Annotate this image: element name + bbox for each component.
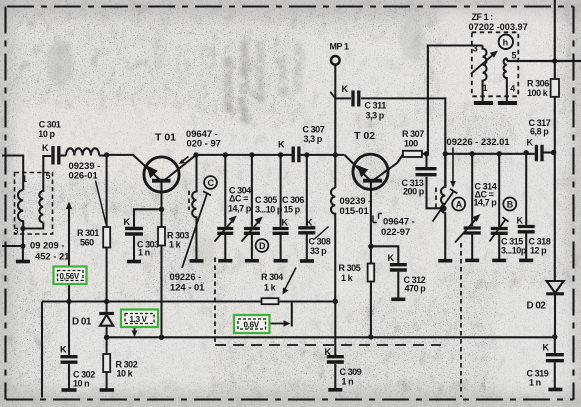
ground bar C302 bbox=[62, 388, 77, 392]
node C304 bus bbox=[223, 152, 228, 157]
svg-text:1 n: 1 n bbox=[529, 378, 541, 388]
svg-text:IBJHCD HIJT: IBJHCD HIJT bbox=[256, 41, 267, 103]
resistor R306 bbox=[551, 79, 559, 97]
svg-text:JBC BEH: JBC BEH bbox=[153, 28, 164, 72]
svg-text:JHPT CLJBCHH: JHPT CLJBCHH bbox=[239, 41, 251, 125]
ground bar ZF1 pin1 bbox=[474, 101, 493, 105]
wire C311 to line down bbox=[361, 98, 445, 186]
node MP1 bus bbox=[333, 152, 338, 157]
ground bar C303 bbox=[127, 260, 141, 264]
svg-text:200 p: 200 p bbox=[403, 187, 425, 197]
svg-text:3,3 p: 3,3 p bbox=[366, 111, 385, 121]
svg-text:1 k: 1 k bbox=[264, 283, 277, 293]
svg-text:3...10p: 3...10p bbox=[501, 246, 527, 256]
wire antenna input left bbox=[2, 156, 23, 191]
svg-text:026-01: 026-01 bbox=[69, 170, 98, 181]
wire 0,56V measure line with arrow bbox=[68, 207, 70, 302]
node R301 rail bbox=[104, 299, 109, 304]
svg-text:ZF 1 :: ZF 1 : bbox=[472, 12, 494, 22]
node ground junction bbox=[20, 243, 25, 248]
node C315 bus bbox=[497, 151, 502, 156]
leader 0,6V arrow bbox=[270, 323, 286, 325]
circle label h bbox=[499, 35, 513, 49]
rail ground y337 bbox=[107, 336, 555, 338]
svg-text:020 - 97: 020 - 97 bbox=[187, 137, 221, 148]
svg-text:C 305: C 305 bbox=[255, 195, 277, 205]
ZF1 dashed box bbox=[472, 32, 519, 96]
node osc coil bus bbox=[195, 154, 197, 156]
svg-text:07202 -003.97: 07202 -003.97 bbox=[469, 22, 528, 32]
trimmer C304 bbox=[224, 155, 226, 227]
svg-text:D: D bbox=[259, 241, 266, 251]
transformer TR input primary coil bbox=[18, 190, 23, 229]
svg-text:ΔC =: ΔC = bbox=[229, 194, 248, 204]
svg-text:10 p: 10 p bbox=[38, 129, 55, 139]
leader T01 arrow bbox=[182, 157, 189, 162]
svg-text:100 k: 100 k bbox=[527, 88, 549, 98]
mark before 09647-022-97 bbox=[373, 216, 377, 223]
node C317 right bbox=[551, 150, 556, 155]
svg-text:470 p: 470 p bbox=[405, 284, 427, 294]
inductor 09239-015-01 bbox=[331, 188, 335, 301]
node R307 line A bbox=[424, 151, 429, 156]
node C318 bus bbox=[524, 150, 529, 155]
ZF1 primary coil bbox=[483, 46, 487, 102]
inductor 09239-026-01 bbox=[66, 148, 99, 155]
resistor R305 bbox=[370, 246, 372, 263]
capacitor C306 bbox=[280, 155, 282, 227]
transistor T02 bbox=[353, 154, 388, 189]
capacitor C318 bbox=[525, 153, 527, 225]
svg-text:10 n: 10 n bbox=[73, 379, 89, 389]
resistor R301 bbox=[106, 155, 108, 227]
svg-text:C 308: C 308 bbox=[309, 237, 331, 247]
node coil to rail302 bbox=[333, 299, 338, 304]
capacitor C317 in bus bbox=[536, 145, 542, 162]
arrow 1,3V down bbox=[134, 328, 136, 333]
svg-text:h: h bbox=[503, 38, 508, 48]
node measuring stub bbox=[291, 302, 293, 327]
wire line A to ZF1 bbox=[428, 46, 483, 154]
svg-text:K: K bbox=[543, 342, 550, 352]
node D02 rail bbox=[552, 334, 557, 339]
trimmer C315 bbox=[498, 154, 500, 227]
svg-text:K: K bbox=[306, 217, 313, 227]
capacitor C311 bbox=[353, 91, 359, 107]
tick MP1 junction bbox=[330, 92, 335, 99]
svg-text:K: K bbox=[527, 137, 534, 147]
svg-text:14,7 p: 14,7 p bbox=[228, 204, 252, 214]
svg-text:K: K bbox=[517, 215, 524, 225]
svg-text:K: K bbox=[388, 253, 395, 263]
measure box 0,56V bbox=[54, 267, 87, 285]
svg-text:015-01: 015-01 bbox=[340, 205, 369, 216]
gang dashed links bbox=[189, 188, 461, 398]
node R303 to rail bbox=[159, 335, 164, 340]
variable inductor A bbox=[441, 154, 445, 260]
svg-text:T 02: T 02 bbox=[354, 130, 375, 142]
svg-text:4: 4 bbox=[510, 84, 515, 94]
wire T02 collector bbox=[374, 155, 403, 180]
svg-text:MP 1: MP 1 bbox=[330, 42, 349, 52]
svg-text:09226 - 232.01: 09226 - 232.01 bbox=[447, 136, 510, 147]
wire bus to T01 base bbox=[107, 155, 160, 180]
scan smudges / bleed-through watermark bbox=[46, 16, 424, 268]
ground bar R302 bbox=[100, 388, 114, 392]
svg-text:0,6V: 0,6V bbox=[244, 321, 260, 330]
leader R304 bbox=[285, 268, 297, 291]
svg-text:5: 5 bbox=[512, 51, 517, 61]
circle label A bbox=[452, 198, 465, 211]
svg-text:R 305: R 305 bbox=[339, 263, 361, 273]
ground bar osc coil bbox=[190, 259, 204, 263]
transistor T01 bbox=[144, 157, 179, 192]
svg-text:09226 -: 09226 - bbox=[170, 271, 202, 282]
wire C301 to coil bbox=[61, 154, 67, 156]
svg-text:K: K bbox=[42, 143, 49, 153]
svg-text:K: K bbox=[278, 139, 285, 149]
measure box 1,3V bbox=[121, 310, 158, 328]
svg-text:C 306: C 306 bbox=[282, 195, 304, 205]
wire MP1 junction to C311 bbox=[335, 97, 351, 99]
capacitor C309 bbox=[334, 301, 336, 355]
svg-text:3: 3 bbox=[14, 226, 19, 236]
svg-text:560: 560 bbox=[80, 238, 94, 248]
wire T01 emitter lead bbox=[160, 181, 162, 209]
wire bus C307 to T02 bbox=[299, 154, 345, 156]
wire C303 to ground bbox=[133, 236, 135, 261]
svg-text:09647 -: 09647 - bbox=[383, 216, 415, 227]
ZF1 secondary coil bbox=[504, 58, 507, 101]
node R305 rail bbox=[368, 334, 373, 339]
svg-text:D 02: D 02 bbox=[527, 301, 547, 312]
svg-text:K: K bbox=[282, 217, 289, 227]
wire ground stem bbox=[22, 229, 24, 262]
node C306 bus bbox=[278, 152, 283, 157]
transformer TR secondary coil bbox=[39, 156, 51, 223]
resistor R304 bbox=[262, 298, 279, 304]
wire T02 emitter lead bbox=[370, 180, 372, 246]
test point MP1 bbox=[331, 56, 340, 65]
node C314 bus bbox=[470, 151, 475, 156]
svg-text:12 p: 12 p bbox=[530, 246, 547, 256]
svg-text:3,3 p: 3,3 p bbox=[304, 134, 323, 144]
capacitor C307 in bus bbox=[293, 147, 299, 163]
wire emitter to C303 bbox=[134, 209, 162, 227]
svg-text:C 307: C 307 bbox=[303, 125, 325, 135]
node T02 emitter bbox=[368, 244, 373, 249]
adjust arrow ZF1 bbox=[471, 53, 495, 74]
svg-text:5: 5 bbox=[46, 171, 51, 181]
wire T01 collector to bus bbox=[164, 155, 197, 181]
svg-text:C 309: C 309 bbox=[340, 367, 362, 377]
svg-text:1 n: 1 n bbox=[342, 377, 354, 387]
wire bus right section bbox=[445, 153, 534, 155]
svg-text:C: C bbox=[208, 178, 215, 188]
svg-text:JE HEBE: JE HEBE bbox=[278, 55, 289, 98]
ground bar ZF1 pin4 bbox=[498, 101, 517, 105]
circle label C bbox=[204, 176, 217, 189]
svg-text:100: 100 bbox=[404, 139, 418, 149]
svg-text:A: A bbox=[456, 200, 463, 210]
trimmer C314 bbox=[471, 154, 473, 227]
svg-text:1,3 V: 1,3 V bbox=[130, 315, 148, 324]
capacitor C319 bbox=[554, 337, 556, 353]
svg-text:1 k: 1 k bbox=[169, 240, 182, 250]
svg-text:K: K bbox=[124, 217, 131, 227]
diode D02 bbox=[547, 281, 564, 293]
svg-text:14,7 p: 14,7 p bbox=[474, 198, 498, 208]
circle label B bbox=[503, 198, 516, 211]
svg-text:124 - 01: 124 - 01 bbox=[170, 282, 204, 293]
wire exit left at ground bbox=[2, 245, 23, 247]
svg-text:K: K bbox=[325, 347, 332, 357]
capacitor C313 bbox=[425, 154, 427, 167]
svg-text:K: K bbox=[342, 84, 349, 94]
svg-text:33 p: 33 p bbox=[310, 246, 327, 256]
svg-text:1 k: 1 k bbox=[341, 273, 354, 283]
svg-text:R 307: R 307 bbox=[402, 129, 424, 139]
capacitor C302 bbox=[68, 302, 70, 356]
node D01 cathode rail bbox=[104, 335, 109, 340]
node pin3 junction bbox=[20, 226, 25, 231]
node T01 emitter bbox=[159, 207, 164, 212]
svg-text:1: 1 bbox=[483, 83, 488, 93]
adjust arrow osc coil with T handle bbox=[182, 194, 207, 269]
svg-text:3: 3 bbox=[473, 44, 478, 54]
wire output right edge bbox=[507, 60, 581, 62]
ground bar coil A bbox=[438, 259, 452, 263]
svg-text:D 01: D 01 bbox=[72, 317, 92, 328]
capacitor C308 bbox=[306, 155, 308, 226]
diode D01 bbox=[106, 302, 108, 314]
node bus/R301 bbox=[104, 152, 109, 157]
ground bar input transformer bbox=[16, 260, 30, 264]
wire secondary bottom to pin3 bbox=[23, 223, 43, 229]
capacitor C301 bbox=[53, 146, 59, 165]
svg-text:15 p: 15 p bbox=[284, 205, 301, 215]
inductor 09226-124-01 oscillator coil bbox=[192, 155, 196, 260]
capacitor C312 bbox=[371, 246, 398, 263]
svg-text:0,56V: 0,56V bbox=[60, 272, 80, 281]
node C313 to coil A bbox=[441, 206, 446, 211]
svg-text:C 311: C 311 bbox=[365, 101, 387, 111]
leader C308 label bbox=[315, 227, 329, 240]
svg-text:R 306: R 306 bbox=[527, 79, 549, 89]
leader arrow 09226-232-01 bbox=[452, 148, 454, 183]
resistor R302 bbox=[106, 337, 108, 354]
supply rail y302 bbox=[42, 300, 335, 302]
svg-text:T 01: T 01 bbox=[155, 132, 176, 144]
wire bus tuning section bbox=[196, 154, 293, 156]
svg-text:HCJBE BE: HCJBE BE bbox=[294, 41, 305, 92]
svg-text:3...10 p: 3...10 p bbox=[255, 205, 283, 215]
resistor R303 bbox=[160, 209, 162, 227]
svg-text:B: B bbox=[507, 200, 514, 210]
node T01 collector bus bbox=[193, 152, 198, 157]
transformer input dashed box bbox=[15, 173, 53, 235]
svg-text:1 n: 1 n bbox=[138, 248, 150, 258]
node C308 bus bbox=[304, 152, 309, 157]
resistor R307 bbox=[403, 151, 422, 157]
svg-text:452 - 21: 452 - 21 bbox=[35, 251, 69, 262]
svg-text:1: 1 bbox=[22, 174, 27, 184]
svg-text:022-97: 022-97 bbox=[381, 226, 410, 237]
node bus coil A bbox=[443, 151, 448, 156]
capacitor C303 bbox=[125, 229, 143, 235]
svg-text:R 301: R 301 bbox=[77, 228, 99, 238]
svg-text:R 304: R 304 bbox=[261, 272, 283, 282]
svg-text:K: K bbox=[60, 344, 67, 354]
leader 09239-026-01 bbox=[96, 181, 107, 225]
vertical feed line right bbox=[554, 0, 556, 79]
trimmer C305 bbox=[251, 155, 253, 227]
svg-text:10 k: 10 k bbox=[117, 369, 134, 379]
measure box 0,6V bbox=[234, 315, 270, 333]
node C305 bus bbox=[249, 152, 254, 157]
svg-text:6,8 p: 6,8 p bbox=[530, 127, 549, 137]
svg-text:09 209 -: 09 209 - bbox=[30, 240, 64, 251]
svg-text:MOCCCJB: MOCCCJB bbox=[223, 56, 235, 112]
circle label D bbox=[256, 239, 269, 252]
